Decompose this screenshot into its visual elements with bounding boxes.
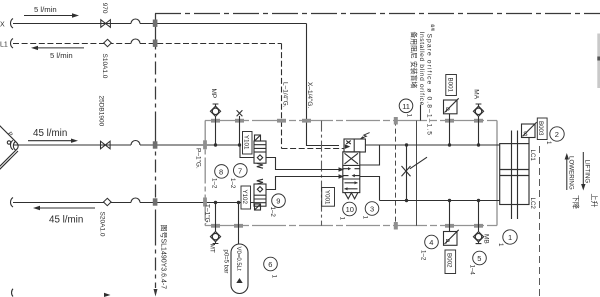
wire LC1 line: [384, 144, 500, 146]
svg-text:下降: 下降: [572, 195, 581, 209]
svg-text:Y101: Y101: [243, 135, 250, 150]
node T junction at MT: [214, 201, 217, 204]
svg-text:5 l/min: 5 l/min: [50, 51, 73, 60]
svg-text:1–2: 1–2: [269, 207, 276, 218]
label box B003: [537, 118, 547, 140]
item number 4: [425, 235, 439, 249]
test point MP diamond: [210, 106, 220, 116]
svg-text:5: 5: [477, 254, 481, 263]
wire P drop to Y101: [240, 145, 254, 158]
valve S20A1.0: [104, 198, 112, 205]
wire L1 dashed line: [13, 43, 282, 45]
svg-text:6: 6: [268, 260, 272, 269]
item number 10: [343, 202, 357, 216]
cylinder dashed boundary: [539, 146, 541, 297]
manifold top edge: [205, 120, 497, 122]
valve Y001 position 1 crossed: [345, 153, 359, 164]
svg-text:S10A1.0: S10A1.0: [101, 54, 108, 79]
svg-text:P: P: [446, 107, 450, 114]
svg-text:45 l/min: 45 l/min: [49, 215, 83, 226]
svg-text:1–4: 1–4: [469, 265, 476, 276]
valve Y001 position 2 stubs: [343, 169, 360, 176]
cylinder rod: [512, 131, 518, 220]
svg-text:1: 1: [508, 233, 512, 242]
svg-text:LC1: LC1: [529, 150, 536, 162]
valve Y102 body: [254, 184, 266, 206]
node LC1 junction at B001: [448, 143, 451, 146]
svg-text:11: 11: [402, 102, 410, 111]
svg-text:1: 1: [271, 275, 278, 279]
node P junction at plug: [238, 143, 241, 146]
svg-text:970: 970: [101, 3, 108, 14]
svg-text:MB: MB: [483, 234, 490, 244]
wire X pilot line: [13, 23, 307, 25]
arrow into valve port B: [339, 174, 345, 179]
valve Y001 spring: [345, 193, 358, 199]
node LC2 junction at B002: [448, 199, 451, 202]
wire port A to LC1 line: [360, 145, 380, 165]
sensor B002 square: [444, 232, 458, 246]
boundary left vertical dash-dot line: [155, 14, 157, 289]
node L1 left hook: [11, 39, 13, 49]
accumulator shell: [231, 244, 248, 294]
svg-text:p0=5 bar: p0=5 bar: [223, 250, 229, 274]
valve Y001 pilot box: [344, 139, 365, 152]
arrow lifting direction: [582, 152, 584, 184]
cylinder piston: [500, 170, 529, 176]
wire plug stem: [239, 116, 241, 145]
leader from blind orifice text: [420, 105, 422, 121]
test point MT diamond: [210, 232, 220, 242]
svg-text:P: P: [446, 238, 450, 245]
svg-text:L–1/4"G.: L–1/4"G.: [282, 82, 289, 108]
svg-text:1: 1: [339, 217, 346, 221]
switch B003 square: [522, 124, 536, 138]
cylinder barrel: [500, 144, 529, 205]
node LC2 junction at orifice: [405, 199, 408, 202]
line hop on X line: [131, 19, 140, 24]
pump connector symbol at left edge (clipped): [0, 122, 20, 177]
svg-text:LC2: LC2: [529, 198, 536, 210]
svg-text:LOWERING: LOWERING: [568, 156, 575, 190]
arrow flow left (T line): [33, 206, 40, 210]
valve Y102 spring: [257, 179, 263, 184]
valve S10A1.0: [104, 39, 112, 46]
node P left hook: [11, 140, 13, 150]
port ticks on manifold top edge: [211, 117, 483, 125]
svg-text:1–2: 1–2: [229, 178, 236, 189]
label box Y101: [243, 132, 253, 155]
boundary top dash-dot line: [155, 13, 600, 15]
svg-text:B003: B003: [537, 121, 544, 136]
svg-text:LIFTING: LIFTING: [584, 160, 591, 184]
solenoid lightning: [361, 133, 370, 139]
svg-text:4: 4: [429, 238, 433, 247]
wire MP stem: [215, 116, 217, 145]
sensor B001 square: [444, 100, 458, 114]
wire Y101 out to main valve: [266, 158, 339, 170]
item number 2: [550, 127, 564, 141]
svg-text:备用阻尼: 备用阻尼: [410, 32, 419, 59]
svg-text:L1: L1: [0, 42, 8, 49]
svg-text:B002: B002: [446, 253, 453, 268]
arrow lowering direction: [566, 160, 568, 191]
manifold left edge: [204, 121, 206, 226]
valve Y001 position 3 arrows: [345, 183, 358, 189]
svg-text:45 l/min: 45 l/min: [33, 128, 67, 139]
svg-text:MA: MA: [473, 89, 480, 99]
label box Y102: [241, 186, 251, 209]
line hop on P line: [131, 141, 140, 146]
svg-text:1: 1: [497, 243, 504, 247]
item number 3: [365, 202, 379, 216]
wire B003 to rod: [528, 138, 530, 144]
leader line to orifice: [410, 157, 427, 169]
port ticks on manifold left edge: [203, 140, 207, 206]
test point MB diamond: [473, 232, 483, 242]
plug X mark: [237, 110, 243, 116]
arrow flow left (L1 line): [31, 46, 38, 50]
manifold right edge: [496, 121, 498, 226]
svg-text:X–1/4"G.: X–1/4"G.: [306, 82, 313, 108]
wire pilot box to LC1 line: [365, 144, 384, 146]
svg-text:1–2: 1–2: [211, 178, 218, 189]
manifold internal section line (dash-dot): [321, 121, 323, 226]
valve Y102 solenoid box: [255, 204, 261, 210]
svg-text:图号SL1490Y3.6.4-7: 图号SL1490Y3.6.4-7: [160, 225, 168, 290]
valve Y101 solenoid box: [255, 135, 261, 141]
label box B002: [445, 250, 456, 274]
wire LC2 line: [380, 200, 500, 202]
node LC1 junction at MA: [477, 143, 480, 146]
svg-text:1: 1: [362, 216, 369, 220]
label box Y001: [322, 188, 335, 207]
item number 5: [473, 251, 487, 265]
svg-text:B001: B001: [446, 78, 453, 93]
wire X vertical drop: [307, 24, 340, 146]
item number 1: [503, 230, 517, 244]
valve Y101 poppet diamond: [257, 155, 262, 160]
node T left hook: [11, 198, 13, 208]
node X left hook: [11, 19, 13, 29]
node LC1 junction at orifice: [405, 143, 408, 146]
wire L1 dashed vertical drop: [282, 44, 345, 149]
svg-text:安装盲堵: 安装盲堵: [410, 61, 419, 88]
svg-text:P–1"G.: P–1"G.: [195, 148, 202, 169]
wire Y102 out to main valve: [266, 177, 339, 190]
svg-text:Spare orifice ø 0.8–1–1.5: Spare orifice ø 0.8–1–1.5: [426, 34, 433, 137]
node T junction at accumulator: [237, 201, 240, 204]
wire B002 stem: [449, 201, 451, 232]
valve Y001 body: [343, 152, 360, 193]
svg-text:S: S: [523, 131, 528, 138]
svg-text:8: 8: [219, 167, 223, 176]
node P junction at MP: [214, 143, 217, 146]
svg-text:1: 1: [406, 114, 413, 118]
wire MA stem: [478, 116, 480, 145]
port ticks on manifold bottom edge: [211, 222, 483, 230]
manifold internal section line solid: [416, 121, 418, 226]
svg-text:Y001: Y001: [323, 190, 330, 205]
position arrows heads: [348, 167, 351, 170]
manifold bottom edge: [205, 225, 497, 227]
orifice connection vertical: [406, 145, 408, 201]
port ticks on enclosure boundary x=155: [153, 20, 158, 206]
svg-text:1–2: 1–2: [420, 250, 427, 261]
svg-text:X: X: [0, 22, 5, 29]
arrow flow right: [28, 140, 71, 142]
node bottom-edge hook: [12, 289, 13, 297]
accumulator gas triangle: [236, 278, 242, 283]
svg-text:V0=0.5Lt: V0=0.5Lt: [235, 247, 241, 272]
wire B001 stem: [449, 114, 451, 145]
valve Y101 spring: [257, 163, 263, 168]
svg-text:MT: MT: [209, 244, 216, 253]
arrow into valve port A: [339, 167, 345, 172]
svg-text:Installed blind orifice: Installed blind orifice: [418, 32, 425, 106]
node LC2 junction at MB: [477, 199, 480, 202]
line hop on T line: [131, 198, 140, 203]
svg-text:3: 3: [370, 205, 374, 214]
arrow flow right: [24, 15, 72, 17]
wire MT stem: [215, 203, 217, 232]
svg-text:2: 2: [555, 130, 559, 139]
bottom cut-off arrow: [104, 293, 111, 297]
wire accumulator stem: [238, 203, 240, 245]
svg-text:9: 9: [276, 197, 280, 206]
svg-text:MP: MP: [210, 89, 217, 99]
valve Y102 poppet diamond: [257, 187, 262, 192]
test point MA diamond: [473, 106, 483, 116]
svg-text:1: 1: [545, 141, 552, 145]
wire T return line: [13, 202, 254, 204]
svg-text:Y102: Y102: [241, 190, 248, 205]
svg-text:T–1"G.: T–1"G.: [204, 204, 211, 225]
scrollbar fragment: [597, 34, 600, 89]
item number 11: [399, 99, 413, 113]
valve Y101 body: [254, 141, 266, 163]
pilot arrow from X line: [345, 144, 351, 149]
wire P pressure line: [13, 144, 240, 146]
svg-text:备用: 备用: [431, 24, 436, 32]
svg-text:S20A1.0: S20A1.0: [99, 212, 106, 237]
svg-text:10: 10: [346, 205, 354, 214]
label box B001: [446, 75, 457, 96]
svg-text:25DB1900: 25DB1900: [98, 96, 105, 127]
boundary bottom arrow: [154, 289, 158, 297]
svg-text:5 l/min: 5 l/min: [34, 5, 57, 14]
wire port B to LC2 line: [360, 177, 380, 201]
spare cavity dashed line: [395, 121, 397, 226]
valve 25DB1900: [101, 141, 106, 149]
svg-text:上升: 上升: [590, 194, 599, 208]
line hop on L1 line: [131, 39, 140, 44]
orifice X symbol: [402, 166, 411, 176]
valve 970 shut-off: [101, 20, 106, 28]
svg-text:7: 7: [238, 166, 242, 175]
wire MB stem: [478, 201, 480, 232]
